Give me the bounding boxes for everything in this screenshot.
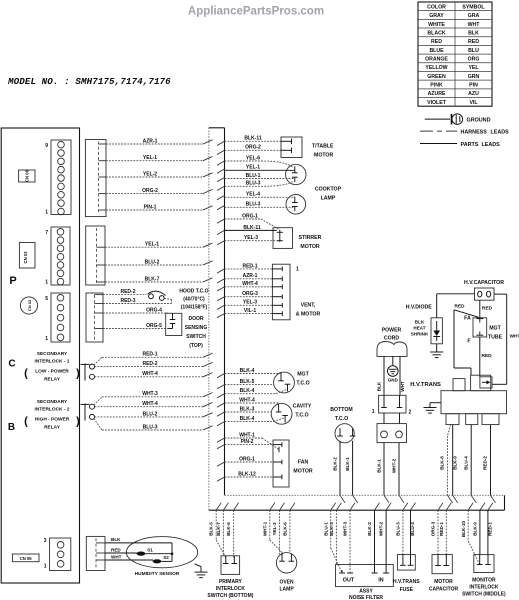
wire BLK-8 from trans [440,425,453,503]
svg-text:BOTTOM: BOTTOM [330,407,352,413]
wire PIN-2 to fan motor [217,445,225,449]
assy noise filter [336,565,394,600]
svg-text:BLK-11: BLK-11 [243,225,260,231]
svg-text:WHT: WHT [111,555,122,560]
svg-text:OVEN: OVEN [280,580,295,586]
mating connector for CN06 [85,140,106,217]
svg-text:RED-2: RED-2 [142,361,157,367]
label CN02 [20,297,37,314]
wire BLK-11 to stirrer motor [217,230,225,234]
wire RED-1 relay1 [94,352,213,365]
wire BLU-2 [105,264,203,266]
wire WHT-4 relay1 [95,376,204,378]
svg-text:BLK-3: BLK-3 [329,522,334,536]
svg-text:BLK-6: BLK-6 [226,522,231,536]
svg-text:YEL-1: YEL-1 [145,242,159,248]
svg-text:WHT-4: WHT-4 [242,281,258,287]
svg-text:RED: RED [431,39,442,45]
wire YEL-1 from CN03 [105,246,203,248]
svg-text:ORG-1: ORG-1 [239,456,255,462]
stirrer motor [273,228,322,250]
wire BLK-5 to primary interlock [209,503,226,558]
svg-text:9: 9 [45,143,48,149]
svg-text:P: P [9,275,16,287]
svg-text:WHITE: WHITE [428,22,445,28]
wire ORG-2 to turntable motor [217,150,225,154]
svg-text:SECONDARY: SECONDARY [37,351,68,357]
wire YEL-2 [106,176,203,178]
svg-text:RED-1: RED-1 [439,522,444,536]
HV trans bottom tab B [466,414,478,425]
HV trans bottom tab A [446,414,459,425]
HV capacitor C1 [475,288,495,300]
svg-text:WHT-1: WHT-1 [262,521,267,536]
svg-text:LAMP: LAMP [321,195,336,201]
svg-text:BLK-5: BLK-5 [209,522,214,536]
wire BLU-3 to lamp 2 [217,206,225,210]
wire RED-2 from trans [483,425,496,503]
wire BLK-2 to noise filter [367,503,379,573]
svg-text:BLK-2: BLK-2 [332,457,337,471]
svg-text:BLK-4: BLK-4 [240,388,255,394]
wire BLK-6 to primary interlock [226,503,238,558]
label HOOD T.C.O value [179,289,208,311]
wire BLK-7 to primary interlock [216,503,228,556]
svg-text:STIRRER: STIRRER [299,235,322,241]
svg-text:WHT-3: WHT-3 [142,391,158,397]
svg-text:INTERLOCK: INTERLOCK [469,585,499,591]
svg-text:S2: S2 [163,555,169,560]
svg-text:BLK-11: BLK-11 [244,136,261,142]
svg-text:POWER: POWER [382,328,402,334]
svg-text:H.V.TRANS: H.V.TRANS [410,382,441,388]
svg-text:S1: S1 [147,547,153,552]
power cord plug connector [377,424,407,443]
svg-text:INTERLOCK - 2: INTERLOCK - 2 [35,407,70,413]
svg-text:INTERLOCK - 1: INTERLOCK - 1 [35,359,70,365]
svg-text:GRN: GRN [468,74,480,80]
svg-text:1: 1 [372,409,375,415]
wire BLK-11 to turntable motor [217,141,225,145]
wire BLK-2 from bottom TCO [332,441,345,503]
monitor interlock switch (middle) [462,555,506,598]
relay contact secondary interlock 1 [81,364,95,381]
label CN05 [12,554,39,562]
wire RED-1 to monitor interlock [487,503,493,555]
svg-text:RELAY: RELAY [44,425,61,431]
wire RED-2 relay1 [95,366,204,368]
svg-text:YEL-3: YEL-3 [272,522,277,535]
svg-text:ASSY: ASSY [359,589,373,595]
svg-text:BLU-3: BLU-3 [246,181,261,187]
wire BLK-12 to fan motor [217,477,225,481]
wire capacitor right WHT loop [492,294,519,384]
svg-text:PINK: PINK [430,83,443,89]
wire BLU-3 to HV trans fuse [396,503,408,555]
svg-text:BLU-2: BLU-2 [143,411,158,417]
svg-text:DOOR: DOOR [189,316,204,322]
svg-text:H.V.TRANS: H.V.TRANS [393,579,420,585]
wire ORG-2 [106,193,203,195]
wire WHT-3 to noise filter [343,503,355,573]
wire AZR-1 [106,143,203,145]
svg-text:ORG-1: ORG-1 [242,213,258,219]
svg-text:T/TABLE: T/TABLE [312,143,334,149]
wire ORG-1 to stirrer motor [217,213,280,229]
wire WHT-1 to oven lamp [262,503,282,553]
wire YEL-1 to cooktop lamp [217,169,225,173]
wire ORG-1 to fan motor [217,462,225,466]
svg-text:COLOR: COLOR [427,4,446,10]
wire BLU-3 to cooktop lamp [217,181,293,191]
svg-text:FA: FA [464,315,471,321]
svg-text:BLK-1: BLK-1 [345,457,350,471]
svg-text:BLU-4: BLU-4 [410,522,415,536]
ground humidity sensor [195,564,208,578]
wire BLK-1 from plug [377,443,390,503]
wire YEL-6 to cooktop lamp [217,155,293,167]
svg-text:SENSING: SENSING [185,325,208,331]
svg-text:CAPACITOR: CAPACITOR [429,587,459,593]
motor capacitor C2 [429,555,459,593]
wire YEL-3 to oven lamp [272,503,284,555]
svg-text:BLK-5: BLK-5 [240,379,255,385]
svg-text:GROUND: GROUND [467,117,491,123]
svg-text:WHT: WHT [400,381,405,392]
svg-text:SYMBOL: SYMBOL [462,4,485,10]
svg-text:INTERLOCK: INTERLOCK [216,586,246,592]
svg-text:NOISE FILTER: NOISE FILTER [349,595,383,600]
svg-text:MOTOR: MOTOR [434,579,453,585]
wire ORG-5 [103,323,173,329]
svg-text:ORG-5: ORG-5 [146,323,162,329]
fan motor [273,440,313,487]
svg-text:(: ( [24,368,28,380]
svg-text:YEL-3: YEL-3 [244,235,258,241]
label COOKTOP LAMP [315,186,342,201]
wire BLK-3 to noise filter [329,503,341,565]
wire HV trans left loop [454,310,471,375]
HV trans bottom tab C [482,414,499,425]
power cord connector 1-2 [372,395,412,415]
connector CN06 pin header [51,140,71,215]
svg-text:GRA: GRA [468,13,480,19]
svg-text:PIN: PIN [469,83,478,89]
wire PIN-1 [106,209,203,211]
svg-text:WHT-4: WHT-4 [142,401,158,407]
HV trans fuse F1 [393,555,420,593]
svg-text:BLK-4: BLK-4 [240,416,255,422]
power cord WHT lead [400,356,405,395]
ground HV transformer [424,403,442,413]
svg-text:PIN-1: PIN-1 [144,204,157,210]
svg-text:BLK-3: BLK-3 [240,406,255,412]
wire BLK-5 to MGT TCO [217,385,225,389]
svg-text:CORD: CORD [384,336,400,342]
svg-text:RED-1: RED-1 [242,263,257,269]
svg-text:HEAT: HEAT [413,326,425,331]
wire ORG-3 to motor capacitor [431,503,443,555]
svg-text:BLU-3: BLU-3 [143,424,158,430]
ground below HV diode [430,344,443,358]
svg-text:COOKTOP: COOKTOP [315,186,342,192]
connector CN05 pin header [50,538,71,571]
magnetron thermal cutout MGT T.C.O [274,372,310,393]
svg-text:AZURE: AZURE [428,91,446,97]
svg-text:LEADS: LEADS [491,130,510,136]
wire WHT-3 relay2 [94,391,213,405]
thermal cutout hood T.C.O [148,291,166,300]
svg-text:VIL-1: VIL-1 [244,308,256,314]
wire YEL-1 [106,160,203,162]
HV diode D1 [431,318,442,344]
wire BLK-10 to monitor interlock [461,503,480,565]
connector CN03 pin header [51,227,70,285]
label secondary interlock 1 low power relay [24,351,80,383]
wire BLK humidity [105,537,172,554]
legend harness leads [420,130,509,136]
svg-text:CAVITY: CAVITY [293,404,312,410]
svg-text:MGT: MGT [297,372,309,378]
svg-text:VIOLET: VIOLET [427,100,447,106]
svg-text:ORG-2: ORG-2 [245,145,261,151]
svg-text:SWITCH: SWITCH [186,334,206,340]
svg-text:(40/70°C): (40/70°C) [183,297,205,303]
svg-text:BLK-8: BLK-8 [440,456,445,470]
svg-text:HARNESS: HARNESS [461,130,488,136]
svg-text:CN 03: CN 03 [23,251,28,264]
svg-text:T.C.O: T.C.O [335,416,348,422]
wire YEL-3 to vent motor [217,305,225,309]
label secondary interlock 2 high power relay [24,399,80,431]
magnetron MGT TUBE U1 [473,318,503,341]
wire BLK-9 to monitor interlock [473,503,485,555]
label BLK HEAT SHRINK [411,320,429,337]
wire BLK-4 to cavity TCO [217,416,285,426]
svg-text:LOW - POWER: LOW - POWER [35,369,69,375]
svg-text:WHT-2: WHT-2 [392,458,397,473]
svg-text:7: 7 [45,230,48,236]
power cord [377,328,407,357]
label CN06 [19,169,35,182]
svg-text:ORG-3: ORG-3 [431,521,436,536]
svg-text:RED: RED [468,39,479,45]
wire F terminal to trans RED [480,337,492,377]
wire RED humidity / sensor S1 [105,547,173,555]
wire HV diode to capacitor [437,294,475,318]
wire RED-1 to motor capacitor [439,503,451,555]
svg-text:BLK-7: BLK-7 [145,276,160,282]
svg-text:2: 2 [409,410,412,416]
svg-text:BLK-12: BLK-12 [238,471,256,477]
svg-text:SWITCH (MIDDLE): SWITCH (MIDDLE) [462,592,506,598]
svg-text:BLU-3: BLU-3 [246,202,261,208]
svg-text:OUT: OUT [343,578,355,584]
svg-text:AppliancePartsPros.com: AppliancePartsPros.com [188,6,324,18]
svg-text:HUMIDITY SENSOR: HUMIDITY SENSOR [135,571,180,577]
svg-text:ORG-2: ORG-2 [142,188,158,194]
svg-text:RED-3: RED-3 [120,298,135,304]
wire ORG-4 [103,307,168,313]
svg-text:BLU-3: BLU-3 [396,522,401,536]
PCB board outline P [1,128,79,583]
svg-text:BLU-1: BLU-1 [246,173,261,179]
svg-text:RED: RED [454,303,465,309]
svg-text:BLK-7: BLK-7 [216,522,221,536]
wire WHT humidity / sensor S2 [105,554,172,564]
svg-text:YEL-1: YEL-1 [143,155,157,161]
wire YEL-4 to lamp 2 [217,196,225,200]
svg-text:BLK: BLK [415,320,425,325]
wire BLK-1 from bottom TCO [345,441,358,503]
wire AZR-1 to vent motor [217,279,225,283]
svg-text:(104/158°F): (104/158°F) [181,305,208,311]
svg-text:YEL-2: YEL-2 [143,171,157,177]
svg-text:T.C.O: T.C.O [295,413,308,419]
mating connector for CN03 [86,226,105,285]
wire BLK-4 lower to MGT TCO [217,388,288,398]
humidity sensor [126,537,197,578]
svg-text:GND: GND [388,378,399,383]
svg-text:YEL-3: YEL-3 [243,300,257,306]
svg-text:RED: RED [482,306,493,312]
wire BLK-4 to MGT TCO [217,374,225,378]
wire BLK-6 to oven lamp [283,503,295,554]
svg-text:MOTOR: MOTOR [300,244,319,250]
wire WHT-1 to fan motor [217,432,279,452]
svg-text:YEL-4: YEL-4 [246,192,260,198]
svg-text:BLK-4: BLK-4 [240,368,255,374]
svg-text:SHRINK: SHRINK [411,332,429,337]
svg-text:BLK-9: BLK-9 [453,456,458,470]
oven lamp [276,553,296,593]
svg-text:WHT: WHT [468,22,481,28]
svg-text:ORG: ORG [468,57,480,63]
label VENT MOTOR [296,303,321,318]
wire BLU-4 to HV trans fuse [410,503,416,555]
svg-text:LEADS: LEADS [482,142,501,148]
svg-text:VENT,: VENT, [301,303,316,309]
svg-text:YEL-1: YEL-1 [246,165,260,171]
wire BLK-9 from trans [453,425,458,503]
svg-text:ORG-4: ORG-4 [146,307,162,313]
HV transformer T1 [441,375,507,414]
wire VIL-1 to vent motor [217,314,225,318]
wire RED-3 return from hood TCO [103,298,172,304]
svg-text:BLK-10: BLK-10 [461,521,466,538]
svg-text:BLU-4: BLU-4 [464,456,469,470]
wire YEL-3 to stirrer motor [217,241,225,245]
svg-text:RED-2: RED-2 [120,289,135,295]
svg-text:1: 1 [296,266,299,272]
power cord ground lead and GND symbol [388,356,399,382]
svg-text:BLU-2: BLU-2 [145,259,160,265]
wire ORG-3 to vent motor [217,297,225,301]
svg-text:CN 06: CN 06 [25,169,30,182]
svg-text:BLACK: BLACK [427,30,445,36]
svg-text:CN 02: CN 02 [27,299,32,311]
svg-text:GRAY: GRAY [429,13,444,19]
svg-text:PARTS: PARTS [461,142,479,148]
svg-text:MOTOR: MOTOR [293,469,312,475]
wire BLU-1 to cooktop lamp [217,178,225,182]
svg-text:CN 05: CN 05 [20,556,33,561]
svg-text:PIN-2: PIN-2 [241,439,254,445]
wire WHT-4 relay2 [95,406,204,408]
svg-text:F: F [467,338,470,344]
turntable motor [281,137,334,158]
svg-text:FUSE: FUSE [400,587,414,593]
svg-text:ORANGE: ORANGE [425,57,448,63]
svg-text:): ) [76,416,80,428]
svg-text:H.V.CAPACITOR: H.V.CAPACITOR [464,280,504,286]
label CN03 [19,243,35,269]
cavity thermal cutout CAVITY T.C.O [271,403,312,424]
svg-text:RED-2: RED-2 [483,456,488,470]
color code table [418,2,492,106]
legend parts leads [420,142,500,148]
svg-text:ORG-3: ORG-3 [242,291,258,297]
svg-text:RED: RED [111,548,121,553]
svg-text:BLK: BLK [468,30,479,36]
svg-text:WHT: WHT [510,333,519,339]
svg-text:BLK: BLK [377,381,382,391]
svg-text:YELLOW: YELLOW [425,65,447,71]
svg-text:RED-1: RED-1 [487,522,492,536]
cooktop lamp 2 [286,195,306,215]
svg-text:GREEN: GREEN [427,74,446,80]
svg-text:1: 1 [44,564,47,570]
svg-text:C: C [8,359,15,370]
svg-text:LAMP: LAMP [280,587,295,593]
wire BLU-1 to noise filter [323,503,342,573]
svg-text:YEL: YEL [468,65,479,71]
svg-text:WHT-1: WHT-1 [239,432,255,438]
mating connector for CN05 [86,536,105,570]
svg-text:WHT-3: WHT-3 [343,521,348,536]
svg-text:RED: RED [482,353,493,359]
svg-text:BLK-1: BLK-1 [377,459,382,473]
primary interlock switch (bottom) [207,556,253,599]
wire harness bus vertical [209,128,225,510]
svg-text:PRIMARY: PRIMARY [219,579,243,585]
power cord BLK lead [377,356,385,395]
wire WHT-4 to cavity TCO [217,403,225,407]
wire BLK-7 [105,281,203,283]
wire RED-1 to vent motor [217,269,225,273]
svg-text:MOTOR: MOTOR [314,152,333,158]
svg-text:MONITOR: MONITOR [472,578,496,584]
power cord plug leads [384,413,400,424]
svg-text:AZU: AZU [468,91,479,97]
connector CN02 pin header [51,293,70,342]
wire capacitor to FA terminal RED [480,300,493,318]
svg-text:SWITCH (BOTTOM): SWITCH (BOTTOM) [207,593,253,599]
svg-text:BLK: BLK [111,537,121,542]
wire WHT-4 to vent motor [217,287,225,291]
wire BLU-4 from trans [464,425,477,503]
svg-text:WHT-4: WHT-4 [239,397,255,403]
svg-text:RELAY: RELAY [44,377,61,383]
svg-text:(: ( [24,416,28,428]
wire BLU-2 relay2 [95,416,204,418]
svg-text:WHT-2: WHT-2 [379,521,384,536]
svg-text:HOOD T.C.O: HOOD T.C.O [179,289,208,295]
svg-text:BLU: BLU [468,48,479,54]
wire HV trans to FA terminal RED [454,303,479,317]
svg-text:FAN: FAN [298,460,309,466]
door sensing switch (top) [166,313,182,335]
